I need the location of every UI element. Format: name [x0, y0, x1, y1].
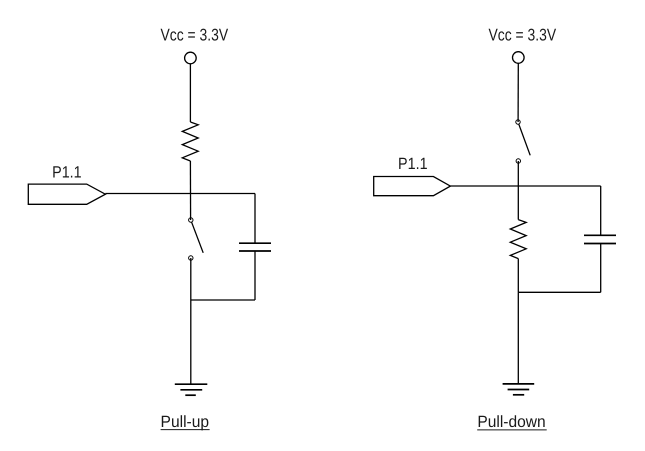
wire node A corner down to capacitor C1 — [254, 194, 256, 244]
wire Vcc terminal to switch S2 — [517, 63, 519, 122]
svg-text:Pull-up: Pull-up — [161, 413, 210, 431]
wire switch S1 to bottom rail — [190, 258, 192, 300]
switch S1 top terminal — [189, 218, 193, 222]
pin P1.1 connector shape (left) — [28, 184, 105, 204]
capacitor C1 bottom plate — [239, 250, 271, 252]
resistor R2 (pull-down resistor) — [510, 220, 526, 259]
ground symbol (left) — [175, 384, 208, 395]
capacitor C1 top plate — [239, 242, 271, 244]
wire resistor R2 to bottom rail — [517, 259, 519, 293]
wire Vcc terminal to resistor R1 — [189, 64, 191, 122]
ground symbol (right) — [503, 384, 535, 395]
svg-text:Vcc = 3.3V: Vcc = 3.3V — [489, 26, 557, 45]
svg-text:P1.1: P1.1 — [52, 163, 82, 181]
switch S2 bottom terminal — [516, 159, 520, 163]
wire capacitor C1 to bottom rail — [254, 251, 256, 300]
pin P1.1 connector shape (right) — [374, 177, 451, 196]
Vcc terminal circle (right) — [513, 52, 525, 64]
resistor R1 (pull-up resistor) — [182, 122, 198, 161]
wire capacitor C2 to bottom rail — [600, 244, 602, 293]
wire switch S2 to node B and resistor R2 — [517, 161, 519, 220]
bottom rail wire (right) — [518, 291, 600, 293]
wire pin P1.1 to node B and capacitor branch (right) — [450, 185, 600, 187]
svg-text:Pull-down: Pull-down — [477, 413, 545, 431]
switch S2 blade — [519, 124, 530, 155]
Vcc terminal circle (left) — [185, 52, 197, 64]
wire pin P1.1 to node A and capacitor branch — [105, 193, 255, 195]
wire node B corner down to capacitor C2 — [600, 186, 602, 235]
wire bottom rail to ground (right) — [517, 292, 519, 384]
capacitor C2 top plate — [584, 234, 616, 236]
switch S1 bottom terminal — [189, 256, 193, 260]
svg-text:P1.1: P1.1 — [398, 155, 428, 173]
bottom rail wire (left) — [191, 299, 255, 301]
wire bottom rail to ground (left) — [190, 300, 192, 384]
svg-text:Vcc = 3.3V: Vcc = 3.3V — [161, 26, 229, 45]
caption underline (left) — [161, 429, 210, 431]
switch S1 blade — [192, 222, 204, 253]
capacitor C2 bottom plate — [584, 243, 616, 245]
caption underline (right) — [477, 429, 547, 431]
switch S2 top terminal — [516, 120, 520, 124]
wire resistor R1 to node A through junction — [189, 161, 191, 220]
